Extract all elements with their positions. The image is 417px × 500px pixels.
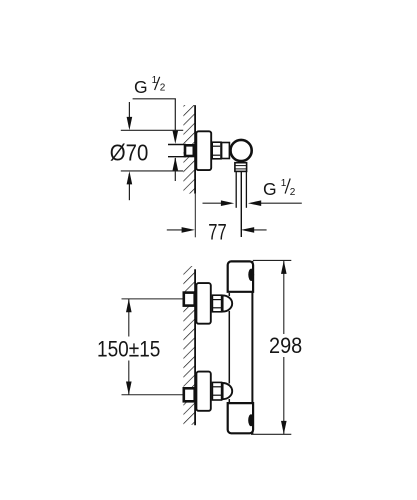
G1/2 right dimension line left segment xyxy=(203,202,232,204)
upper ball joint xyxy=(223,295,233,311)
wall hatch strip (top view) xyxy=(183,105,195,194)
concealed union nut in wall (top view) xyxy=(185,145,194,156)
hex union nut (top view) xyxy=(212,142,221,159)
leader line under G1/2 top-left xyxy=(133,98,176,100)
Ø70 bottom extension line xyxy=(121,170,183,172)
outlet pipe down (shower outlet) xyxy=(235,172,237,208)
outlet collar below knob xyxy=(235,163,247,172)
G1/2 right dimension line right segment xyxy=(251,202,302,204)
wall surface line (bottom view) xyxy=(194,269,196,425)
inlet pipe horizontal (G1/2 nipple) xyxy=(168,144,186,146)
298 dimension line + arrows xyxy=(283,261,285,335)
lower handle button (dark ellipse) xyxy=(248,414,254,426)
valve connector block (top view) xyxy=(222,143,230,159)
top cap of thermostat bar xyxy=(228,261,253,291)
lower concealed union (bold square in wall) xyxy=(184,388,195,401)
svg-text:G: G xyxy=(134,77,148,97)
svg-text:150±15: 150±15 xyxy=(97,336,160,361)
298 bottom extension line xyxy=(251,433,291,435)
bottom cap of thermostat bar xyxy=(228,403,253,433)
svg-text:1: 1 xyxy=(281,178,287,189)
svg-text:Ø70: Ø70 xyxy=(110,140,149,166)
escutcheon Ø70 (top view, side) xyxy=(196,131,211,170)
svg-text:2: 2 xyxy=(160,82,166,93)
G1/2 upper arrow to pipe top xyxy=(174,99,176,136)
bar body right edge xyxy=(251,261,253,434)
77 dimension: wall extension line xyxy=(194,194,196,238)
Ø70 upper arrow xyxy=(128,102,130,127)
150±15 bottom extension line xyxy=(122,394,183,396)
upper handle button (dark ellipse) xyxy=(248,269,254,281)
150±15 dimension line + arrows xyxy=(128,299,130,337)
lower ball joint xyxy=(223,383,233,399)
svg-text:2: 2 xyxy=(290,187,296,198)
upper escutcheon (front) xyxy=(196,283,210,324)
upper hex nut xyxy=(212,295,221,312)
outlet pipe centerline extension xyxy=(240,172,242,237)
298 top extension line xyxy=(253,259,291,261)
wall surface line (top view) xyxy=(194,105,196,193)
svg-text:G: G xyxy=(263,179,277,199)
bar body left edge xyxy=(228,293,230,296)
lower escutcheon (front) xyxy=(196,372,210,411)
knob circle (handle, top view) xyxy=(231,140,252,161)
77 dimension line right part xyxy=(244,229,267,231)
wall hatch strip (bottom view) xyxy=(183,266,195,425)
150±15 top extension line xyxy=(122,298,183,300)
77 dimension line left part xyxy=(167,229,191,231)
Ø70 top extension line xyxy=(121,129,183,131)
svg-text:298: 298 xyxy=(269,333,302,358)
G1/2 lower arrow to pipe bottom xyxy=(174,158,176,181)
lower hex nut xyxy=(212,382,221,400)
svg-text:77: 77 xyxy=(208,219,226,244)
Ø70 lower arrow xyxy=(128,174,130,200)
upper concealed union (bold square in wall) xyxy=(184,293,195,306)
